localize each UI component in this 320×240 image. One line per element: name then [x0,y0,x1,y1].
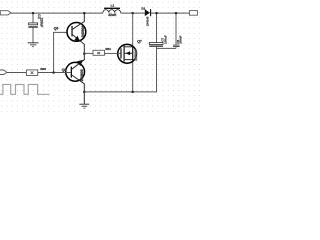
svg-text:Q6: Q6 [54,27,59,31]
svg-text:R30: R30 [40,67,46,71]
inductor L1 22uH [103,3,121,17]
mosfet Q7 (N-channel) [118,39,142,63]
node: top rail junction at C7 [155,12,158,15]
ground (below Q8) [79,104,89,109]
node: bottom rail junction at Q8 collector [83,91,86,94]
transistor Q8 (PNP 2N3906) [62,60,85,104]
waveform (square-wave signal annotation) [0,84,50,94]
wire: junction to R31 [84,52,93,54]
svg-text:D1: D1 [141,7,145,11]
wire: R31 to Q7 gate [105,52,121,54]
svg-text:Q7: Q7 [137,39,142,43]
net tag VOUT (right output) [189,11,197,16]
ground (below C1) [28,42,39,47]
wire: Q6/Q8 base net (vertical from bottom signal up to Q6 base) [54,32,72,72]
svg-text:Q8: Q8 [62,68,67,72]
svg-text:220uF: 220uF [40,18,44,28]
wire: R30 to Q8 base [38,72,71,74]
svg-text:2N3904: 2N3904 [81,26,85,38]
svg-text:22uH: 22uH [108,13,117,17]
wire bottom rail [84,47,156,92]
transistor Q6 (NPN 2N3904) [54,13,86,60]
wire: tag to R30 [7,72,27,74]
wire top rail: L1 to diode anode [121,12,145,14]
wire: Q7 drain/source vertical [132,13,134,92]
node: top rail junction at Q7 drain [131,12,134,15]
svg-text:2N7000: 2N7000 [134,49,138,60]
capacitor C1 [28,13,43,42]
svg-text:2N3906: 2N3906 [80,69,84,81]
node: gate-drive junction (Q6 emitter / Q8 emitter / R31) [83,52,86,55]
node: bottom rail junction at Q7 source [131,91,134,94]
resistor R31 (gate resistor, boxed value) [93,47,111,55]
svg-text:100nF: 100nF [179,35,183,43]
svg-text:26: 26 [97,51,101,55]
capacitor C8 (output ceramic) [173,13,183,47]
node: base net junction [52,71,55,74]
resistor R30 (series input, crossed box) [26,67,46,76]
wire top rail: tag to L1 [11,12,103,14]
svg-text:100uF: 100uF [163,35,167,44]
diode D1 (1N4148) [141,7,150,26]
net tag VIN (top-left input) [0,11,11,15]
svg-text:R31: R31 [105,47,111,51]
net tag input (bottom-left signal) [0,70,7,75]
node: top rail junction at C1 [32,12,35,15]
node: top rail junction at Q6 collector [83,12,86,15]
node: top rail junction at C8 [175,12,178,15]
svg-text:L1: L1 [111,3,115,7]
wire top rail: diode cathode to output tag [151,12,190,14]
capacitor C7 (output electrolytic) [149,13,167,47]
svg-text:1N4148: 1N4148 [146,16,150,26]
